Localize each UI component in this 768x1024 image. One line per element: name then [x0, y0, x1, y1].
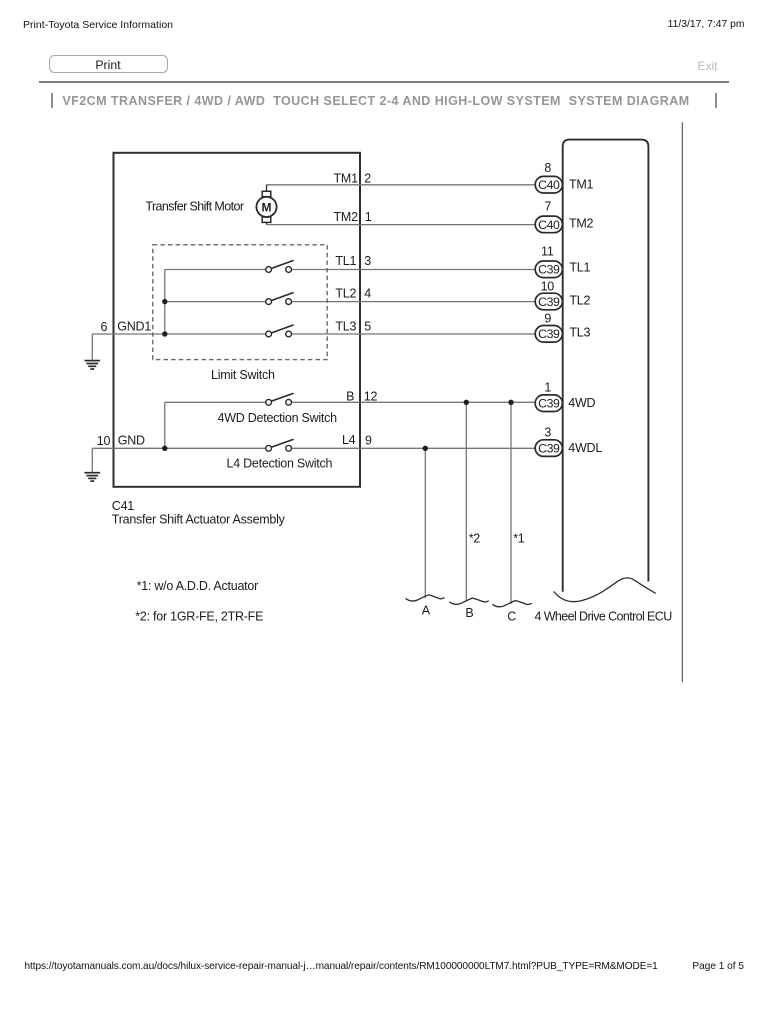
svg-text:1: 1	[365, 210, 372, 224]
svg-text:C39: C39	[538, 263, 560, 277]
svg-text:10: 10	[541, 280, 555, 294]
junction node A	[423, 446, 428, 451]
breakline A	[406, 595, 445, 601]
switch TL1	[266, 260, 294, 272]
svg-text:*1: w/o A.D.D. Actuator: *1: w/o A.D.D. Actuator	[137, 579, 258, 593]
C41 Transfer Shift Actuator Assembly box	[114, 153, 361, 487]
switch 4WD detection	[266, 393, 294, 405]
connector C39 pin 11 (TL1)	[535, 261, 562, 278]
ECU bottom break (wavy edge)	[554, 578, 656, 602]
wire TM2	[267, 224, 536, 226]
page title	[62, 94, 689, 108]
wire TL3 / GND1	[92, 333, 535, 335]
svg-text:L4 Detection Switch: L4 Detection Switch	[227, 456, 333, 470]
header left: document title	[23, 19, 173, 31]
svg-text:TL1: TL1	[569, 260, 590, 274]
svg-text:C40: C40	[538, 178, 560, 192]
svg-text:12: 12	[364, 389, 378, 403]
junction bus2-GND	[162, 446, 167, 451]
svg-text:C40: C40	[538, 218, 560, 232]
wire bus detection	[164, 402, 166, 448]
svg-text:TL2: TL2	[569, 293, 590, 307]
wire L4 / GND	[92, 447, 535, 449]
svg-text:10: 10	[97, 434, 111, 448]
svg-text:4 Wheel Drive Control ECU: 4 Wheel Drive Control ECU	[535, 609, 673, 623]
ground symbol GND	[85, 473, 101, 481]
wire TL1	[165, 269, 536, 271]
svg-text:4WDL: 4WDL	[568, 441, 602, 455]
svg-text:GND: GND	[118, 434, 145, 448]
svg-text:*1: *1	[513, 531, 525, 545]
header rule	[39, 81, 729, 83]
limit switch dashed box	[153, 245, 327, 360]
svg-text:11: 11	[541, 245, 554, 259]
junction bus1-TL2	[162, 299, 167, 304]
wire TM1	[267, 184, 536, 186]
wire B drop	[465, 402, 467, 601]
svg-text:Transfer Shift Motor: Transfer Shift Motor	[145, 199, 243, 213]
title right bar	[715, 93, 717, 109]
junction node B	[464, 400, 469, 405]
switch TL2	[266, 293, 294, 305]
wire GND1 stub	[91, 334, 93, 360]
connector C40 pin 7 (TM2)	[535, 216, 562, 233]
wire 4WD (B)	[165, 401, 536, 403]
svg-text:Limit Switch: Limit Switch	[211, 368, 275, 382]
svg-text:TL3: TL3	[335, 319, 356, 333]
4 Wheel Drive Control ECU box	[563, 140, 649, 592]
switch TL3	[266, 325, 294, 337]
svg-text:Transfer Shift Actuator Assemb: Transfer Shift Actuator Assembly	[112, 513, 286, 527]
svg-text:9: 9	[544, 312, 551, 326]
svg-text:M: M	[262, 200, 272, 214]
wire C drop	[510, 402, 512, 604]
connector C39 pin 3 (4WDL)	[535, 440, 562, 457]
svg-text:3: 3	[364, 254, 371, 268]
footer URL	[25, 961, 658, 972]
svg-text:C39: C39	[538, 397, 560, 411]
switch L4 detection	[266, 439, 294, 451]
wire TL2	[165, 301, 536, 303]
wire A drop	[424, 448, 426, 598]
svg-text:TL1: TL1	[335, 254, 356, 268]
junction node C	[508, 400, 513, 405]
svg-text:3: 3	[544, 426, 551, 440]
print button	[49, 55, 168, 73]
frame border line (right of diagram)	[681, 122, 683, 682]
svg-text:TM2: TM2	[569, 217, 594, 231]
title left bar	[51, 93, 53, 108]
svg-text:6: 6	[100, 320, 107, 334]
svg-text:TL2: TL2	[335, 287, 356, 301]
svg-text:B: B	[346, 390, 354, 404]
footer page number	[692, 961, 744, 972]
motor M (Transfer Shift Motor)	[256, 185, 276, 225]
ground symbol GND1	[85, 361, 101, 369]
svg-text:4WD Detection Switch: 4WD Detection Switch	[218, 411, 338, 425]
header right: date/time	[668, 19, 745, 30]
svg-text:L4: L4	[342, 433, 356, 447]
svg-text:TM1: TM1	[569, 177, 594, 191]
exit link	[698, 59, 718, 73]
svg-text:TM1: TM1	[334, 172, 359, 186]
svg-text:C41: C41	[112, 499, 134, 513]
svg-text:4WD: 4WD	[568, 396, 595, 410]
svg-text:*2: for 1GR-FE, 2TR-FE: *2: for 1GR-FE, 2TR-FE	[135, 610, 263, 624]
svg-text:C39: C39	[538, 327, 560, 341]
svg-text:2: 2	[364, 172, 371, 186]
wire bus limit switch	[164, 270, 166, 335]
connector C40 pin 8 (TM1)	[535, 176, 562, 193]
svg-text:B: B	[465, 606, 473, 620]
svg-text:GND1: GND1	[117, 320, 151, 334]
wire GND stub	[91, 448, 93, 472]
svg-text:C: C	[507, 610, 516, 624]
svg-text:5: 5	[364, 319, 371, 333]
svg-text:8: 8	[544, 161, 551, 175]
connector C39 pin 1 (4WD)	[535, 395, 562, 412]
junction bus1-TL3	[162, 331, 167, 336]
svg-text:9: 9	[365, 433, 372, 447]
svg-text:TL3: TL3	[569, 325, 590, 339]
breakline C	[493, 601, 532, 607]
breakline B	[450, 598, 489, 604]
svg-text:1: 1	[544, 381, 551, 395]
svg-text:TM2: TM2	[334, 210, 359, 224]
connector C39 pin 9 (TL3)	[535, 326, 562, 343]
svg-text:C39: C39	[538, 295, 560, 309]
svg-text:C39: C39	[538, 442, 560, 456]
svg-text:*2: *2	[469, 531, 481, 545]
svg-text:7: 7	[544, 200, 551, 214]
connector C39 pin 10 (TL2)	[535, 293, 562, 310]
svg-text:4: 4	[364, 287, 371, 301]
svg-text:A: A	[422, 603, 431, 617]
